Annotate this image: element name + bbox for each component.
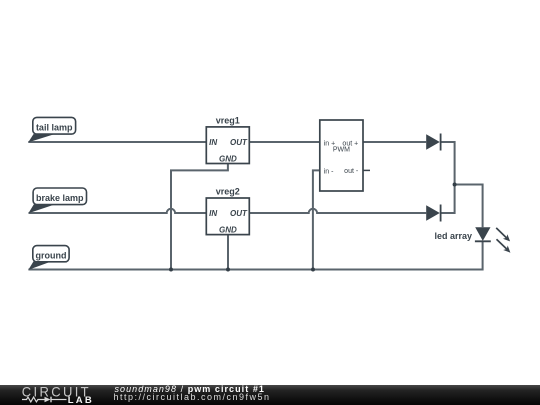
svg-text:tail lamp: tail lamp <box>36 122 73 132</box>
LED emission arrow 2 <box>497 239 511 253</box>
svg-text:OUT: OUT <box>230 209 248 218</box>
flag tail lamp <box>28 117 75 142</box>
PWM block <box>320 120 370 191</box>
wire node to LED anode <box>455 185 483 228</box>
voltage regulator vreg1 <box>206 116 249 164</box>
ground rail wire <box>28 241 482 269</box>
svg-text:in -: in - <box>324 168 334 175</box>
flag brake lamp <box>28 188 86 213</box>
footer bar <box>0 385 540 405</box>
voltage regulator vreg2 <box>206 186 249 234</box>
svg-text:IN: IN <box>209 209 217 218</box>
svg-text:brake lamp: brake lamp <box>36 193 84 203</box>
CircuitLab logo text LAB <box>68 396 94 405</box>
LED led array <box>434 227 490 241</box>
svg-text:vreg1: vreg1 <box>216 116 240 126</box>
junction dot vreg2 gnd / rail <box>226 268 230 272</box>
CircuitLab logo waveform resistor + diode <box>0 385 110 405</box>
footer url line <box>114 393 271 402</box>
wire node to D2 cathode <box>441 185 455 214</box>
svg-text:GND: GND <box>219 225 237 234</box>
svg-text:led array: led array <box>434 231 472 241</box>
LED emission arrow 1 <box>496 228 510 242</box>
diode D2 <box>426 205 440 222</box>
svg-text:PWM: PWM <box>333 147 350 154</box>
junction dot vreg1 gnd / rail <box>169 268 173 272</box>
junction dot diode node <box>453 183 457 187</box>
CircuitLab logo text CIRCUIT <box>22 385 91 399</box>
wire vreg2 OUT to D2 anode (hop over PWM in- wire) <box>249 209 426 213</box>
wire PWM in- to ground rail <box>313 170 320 269</box>
svg-text:out -: out - <box>344 168 359 175</box>
diode D1 <box>426 134 440 151</box>
footer title line <box>115 385 265 394</box>
svg-text:ground: ground <box>36 250 67 260</box>
wire brake lamp to vreg2 IN (hop over vreg1 gnd wire) <box>29 209 207 213</box>
wire vreg2 GND to ground rail <box>227 235 229 270</box>
wire vreg1 GND to ground rail <box>171 164 228 270</box>
svg-text:IN: IN <box>209 138 217 147</box>
PWM out- open stub <box>363 169 370 171</box>
svg-text:vreg2: vreg2 <box>216 186 240 196</box>
svg-text:GND: GND <box>219 154 237 163</box>
flag ground <box>28 246 69 270</box>
wire PWM out+ to D1 anode <box>363 141 426 143</box>
junction dot pwm in- / rail <box>311 268 315 272</box>
wire D1 cathode to node <box>441 142 455 185</box>
svg-text:OUT: OUT <box>230 138 248 147</box>
wire vreg1 OUT to PWM in+ <box>249 141 319 143</box>
wire tail lamp to vreg1 IN <box>28 141 206 143</box>
